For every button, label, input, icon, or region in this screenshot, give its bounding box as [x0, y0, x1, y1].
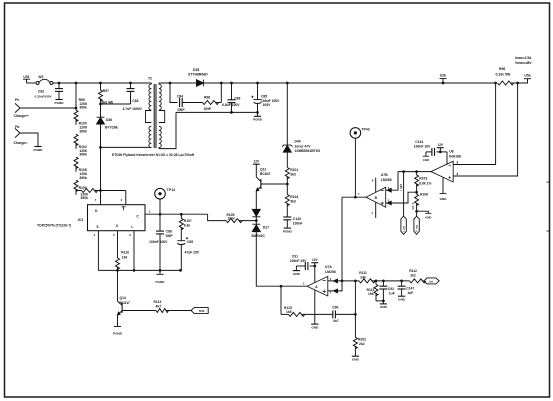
power symbol 12V (Q12) — [253, 160, 260, 165]
svg-text:R96: R96 — [499, 67, 505, 71]
svg-text:D36: D36 — [106, 118, 112, 122]
svg-text:4.7nF 1600V: 4.7nF 1600V — [123, 107, 143, 111]
svg-text:R109: R109 — [79, 186, 87, 190]
resistor R98 — [203, 96, 219, 111]
svg-text:I_out: I_out — [403, 226, 406, 232]
capacitor C85 — [251, 82, 280, 113]
capacitor C91 — [290, 254, 316, 270]
resistor R114 — [122, 300, 191, 313]
wire sense+ to U8 pin3 — [453, 83, 495, 165]
svg-text:24k: 24k — [360, 276, 366, 280]
svg-text:GND: GND — [440, 197, 448, 201]
svg-text:C82: C82 — [38, 90, 44, 94]
connector Pe Charger+ — [14, 98, 29, 118]
svg-text:Int: Int — [429, 279, 433, 283]
snubber wire right — [216, 102, 222, 104]
resistor R100 — [74, 122, 87, 149]
svg-text:U5a: U5a — [524, 73, 530, 77]
svg-text:GND: GND — [380, 305, 388, 309]
resistor R109 — [76, 186, 126, 200]
power symbol PGND (Q14) — [113, 327, 123, 336]
wire clamp rail — [101, 103, 131, 105]
svg-text:R106: R106 — [420, 192, 428, 196]
svg-text:C92: C92 — [388, 287, 394, 291]
capacitor C92 — [379, 281, 394, 304]
transistor Q12 — [256, 164, 287, 205]
svg-text:Pe: Pe — [15, 98, 19, 102]
resistor R202 — [353, 314, 366, 356]
wire U7B out — [342, 196, 366, 198]
svg-text:12V: 12V — [253, 160, 260, 164]
op-amp U8 INA168 — [431, 150, 461, 182]
capacitor C84 — [177, 94, 185, 112]
svg-text:Zener 47V: Zener 47V — [295, 144, 312, 148]
svg-text:TP43: TP43 — [361, 128, 369, 132]
wire output bus — [203, 82, 495, 84]
resistor R105 — [226, 213, 256, 223]
svg-text:GND: GND — [311, 325, 319, 329]
wire U8 V+ — [446, 152, 448, 165]
net flag TFB — [191, 308, 208, 314]
svg-text:Charger+: Charger+ — [14, 114, 29, 118]
wire U7A pin2 line — [328, 280, 359, 282]
capacitor C82 — [34, 82, 63, 100]
node U7B pin5 entry — [387, 201, 391, 205]
svg-text:47uF 25V: 47uF 25V — [185, 251, 200, 255]
op-amp U7A — [303, 265, 336, 296]
testpoint TP14 — [155, 188, 175, 199]
svg-text:T2: T2 — [148, 77, 152, 81]
capacitor C90 — [332, 305, 355, 322]
jumper W2 — [36, 75, 53, 85]
svg-text:6.8uF 100V: 6.8uF 100V — [222, 103, 240, 107]
svg-text:Q14: Q14 — [120, 296, 126, 300]
svg-text:1uF: 1uF — [407, 291, 413, 295]
svg-text:390k: 390k — [79, 153, 87, 157]
wire feedback drop — [280, 286, 282, 314]
svg-text:GND: GND — [352, 358, 360, 362]
wire U7B pin5 — [386, 192, 417, 203]
svg-text:R110: R110 — [121, 251, 129, 255]
wire secondary top — [159, 82, 196, 84]
diode D36 — [97, 104, 119, 129]
svg-text:12V: 12V — [437, 143, 444, 147]
wire Charger- to PGND — [20, 133, 38, 146]
svg-text:100V: 100V — [263, 103, 272, 107]
svg-text:C144: C144 — [415, 140, 423, 144]
svg-text:PGND: PGND — [253, 118, 263, 122]
svg-text:R114: R114 — [154, 300, 162, 304]
resistor R96 — [494, 67, 519, 85]
svg-text:D40: D40 — [295, 140, 301, 144]
wire U7B V- — [375, 202, 377, 218]
svg-text:C89: C89 — [187, 240, 193, 244]
svg-text:R103: R103 — [419, 177, 427, 181]
diode D27a — [252, 205, 260, 224]
svg-text:C90: C90 — [332, 305, 338, 309]
wire M pin — [125, 191, 127, 205]
svg-text:10k: 10k — [122, 255, 128, 259]
svg-text:TFB: TFB — [199, 309, 206, 313]
svg-text:IC4: IC4 — [78, 218, 83, 222]
svg-text:I_SET: I_SET — [399, 183, 403, 191]
svg-text:390k: 390k — [79, 130, 87, 134]
node feedback — [354, 313, 357, 316]
svg-text:C143: C143 — [293, 217, 301, 221]
node U7B pin6 entry — [387, 188, 391, 192]
svg-text:4n7: 4n7 — [333, 319, 339, 323]
svg-text:PGND: PGND — [283, 229, 293, 233]
wire U7B V+ — [375, 178, 377, 193]
wire TP14 to drain — [159, 199, 161, 214]
terminal U51 — [23, 75, 36, 83]
svg-text:3k3: 3k3 — [290, 200, 296, 204]
border tick 1 — [547, 181, 550, 183]
power symbol PGND (C143) — [283, 228, 293, 233]
ground (C147) — [398, 296, 406, 301]
wire U8 out line — [398, 171, 431, 173]
ground (R202) — [352, 356, 360, 361]
ground (U7A V-) — [311, 324, 319, 329]
svg-text:BC817: BC817 — [120, 301, 131, 305]
capacitor C143 — [283, 217, 302, 228]
svg-text:4: 4 — [456, 172, 458, 176]
svg-text:STTH8R06D: STTH8R06D — [188, 73, 208, 77]
ground (R113/C92) — [380, 304, 388, 309]
svg-text:U2b: U2b — [440, 73, 446, 77]
resistor R102 — [74, 145, 87, 172]
svg-text:BYV26E: BYV26E — [105, 125, 119, 129]
svg-text:PGND: PGND — [34, 148, 44, 152]
wire primary bottom — [101, 146, 152, 148]
svg-text:R107: R107 — [184, 219, 192, 223]
svg-text:R98: R98 — [204, 96, 210, 100]
connector Pd Charger- — [14, 125, 28, 145]
svg-text:0.33e 5W: 0.33e 5W — [496, 72, 511, 76]
snubber wire left — [169, 82, 172, 85]
svg-text:4k7: 4k7 — [156, 304, 162, 308]
svg-text:C86: C86 — [234, 96, 240, 100]
svg-text:Vmax=48V: Vmax=48V — [515, 61, 532, 65]
svg-text:BAR43C: BAR43C — [252, 234, 266, 238]
svg-text:U7B: U7B — [381, 173, 388, 177]
svg-text:6.8e: 6.8e — [184, 224, 191, 228]
node U7A pin3 entry — [334, 289, 338, 293]
svg-text:0.22uF630V: 0.22uF630V — [34, 95, 52, 99]
svg-text:PGND: PGND — [156, 280, 166, 284]
svg-text:1k5: 1k5 — [286, 310, 292, 314]
svg-text:Q12: Q12 — [260, 168, 266, 172]
svg-text:GND: GND — [423, 158, 429, 162]
power symbol PGND (source rail) — [156, 270, 166, 284]
wire U7A V- — [314, 290, 316, 324]
transformer T2 — [146, 77, 165, 149]
wire U7A pin3 — [328, 281, 342, 291]
wire U7A out — [280, 285, 283, 288]
svg-text:D27: D27 — [263, 226, 269, 230]
svg-text:INA168: INA168 — [449, 155, 461, 159]
wire U7A V+ — [314, 263, 316, 283]
resistor R111 — [359, 271, 410, 283]
svg-text:100nF: 100nF — [293, 222, 303, 226]
resistor R104 — [285, 184, 298, 217]
net flag Int — [424, 278, 439, 284]
svg-text:TOP250YN (TO220-7): TOP250YN (TO220-7) — [37, 224, 71, 228]
svg-text:Imax=2.5A: Imax=2.5A — [515, 56, 532, 60]
note Imax Vmax — [515, 56, 532, 65]
testpoint TP43 — [350, 128, 370, 139]
svg-text:12V: 12V — [312, 258, 319, 262]
resistor R97 — [99, 82, 114, 105]
resistor R110 — [116, 231, 130, 271]
node D27 mid — [255, 219, 258, 222]
wire output gnd rail — [176, 111, 258, 113]
svg-text:DNP: DNP — [178, 108, 186, 112]
resistor R106 — [415, 192, 429, 212]
svg-text:LM258: LM258 — [381, 178, 392, 182]
svg-text:LM258: LM258 — [325, 270, 336, 274]
svg-text:390k: 390k — [79, 176, 87, 180]
capacitor C83 — [123, 82, 143, 111]
power symbol 12V (U8) — [437, 143, 444, 152]
svg-text:100uF 100V: 100uF 100V — [261, 99, 280, 103]
svg-text:U7A: U7A — [325, 265, 332, 269]
svg-text:100nF 16V: 100nF 16V — [414, 145, 431, 149]
resistor R115 — [281, 306, 333, 317]
resistor R99 — [74, 98, 87, 125]
wire Charger+ to divider — [20, 107, 76, 109]
capacitor C144 — [414, 140, 447, 156]
resistor R112 — [409, 269, 426, 283]
svg-text:3: 3 — [456, 161, 458, 165]
node Q12 base — [286, 183, 289, 186]
svg-text:C147: C147 — [406, 287, 414, 291]
svg-text:GND: GND — [425, 216, 431, 220]
svg-text:390k: 390k — [80, 196, 88, 200]
svg-text:3k3: 3k3 — [290, 173, 296, 177]
capacitor C89 — [177, 237, 200, 270]
node U7A pin2 entry — [334, 279, 338, 283]
svg-text:C91: C91 — [292, 254, 298, 258]
wire IC4 pin6 — [133, 231, 135, 271]
wire U7B out drop — [341, 197, 343, 281]
svg-text:2k2: 2k2 — [410, 274, 416, 278]
wire bus to R99 — [75, 82, 78, 85]
svg-text:R112: R112 — [409, 269, 417, 273]
svg-text:C84: C84 — [177, 94, 183, 98]
wire primary top — [59, 82, 151, 84]
svg-text:GND: GND — [398, 298, 406, 302]
svg-text:U8: U8 — [449, 150, 453, 154]
svg-text:BC847: BC847 — [260, 172, 271, 176]
svg-text:ETD39 Flyback transformer N1:N: ETD39 Flyback transformer N1:N2 = 52:28 … — [112, 153, 195, 157]
power symbol 12V (U7A) — [311, 258, 318, 263]
op-amp U7B — [358, 173, 392, 207]
svg-text:390k: 390k — [79, 106, 87, 110]
ground (C91) — [293, 266, 301, 276]
svg-text:DNP: DNP — [166, 234, 174, 238]
wire C84 to R98 — [182, 102, 202, 104]
svg-text:U51: U51 — [23, 75, 29, 79]
svg-text:L: L — [131, 225, 133, 229]
zener D40 — [282, 140, 320, 154]
wire secondary bottom — [159, 112, 176, 148]
svg-text:D35: D35 — [193, 68, 199, 72]
capacitor C86 — [222, 82, 240, 113]
wire sense- to U8 pin4 — [453, 83, 517, 176]
capacitor C147 — [398, 281, 415, 296]
wire R111 node to C90 node — [354, 281, 356, 315]
resistor R101 — [285, 152, 298, 184]
svg-text:1SMB5941BT3G: 1SMB5941BT3G — [295, 149, 321, 153]
svg-text:100nF 25V: 100nF 25V — [290, 259, 307, 263]
svg-text:1uF: 1uF — [389, 291, 395, 295]
svg-text:6.8k 1%: 6.8k 1% — [419, 182, 431, 186]
svg-text:R101: R101 — [290, 168, 298, 172]
net flag Iout (vertical) — [401, 172, 406, 235]
ground (R106) — [417, 211, 432, 219]
svg-text:R202: R202 — [358, 338, 366, 342]
wire source rail — [98, 269, 180, 271]
diode D27b — [252, 224, 270, 238]
svg-text:R111: R111 — [359, 271, 367, 275]
diode D35 — [188, 68, 208, 87]
svg-text:PGND: PGND — [113, 332, 123, 336]
svg-text:TP14: TP14 — [167, 188, 175, 192]
svg-text:100nF 100V: 100nF 100V — [149, 240, 168, 244]
wire U8 gnd pin — [440, 177, 448, 201]
wire drain to R105 — [145, 213, 208, 215]
terminal U5a — [518, 73, 531, 83]
capacitor C88 — [149, 214, 173, 270]
svg-text:V_out: V_out — [416, 225, 419, 232]
resistor R113 — [367, 281, 384, 301]
svg-text:GND: GND — [293, 272, 301, 276]
power symbol PGND (C82) — [55, 100, 65, 105]
wire U7B pin6 — [386, 172, 398, 191]
wire bus to D40 — [286, 82, 289, 85]
border tick 2 — [547, 230, 550, 232]
svg-text:2k2: 2k2 — [359, 342, 365, 346]
svg-text:VO_S: VO_S — [411, 202, 415, 209]
resistor R107 — [179, 213, 192, 241]
resistor R108 — [74, 168, 87, 195]
svg-text:PGND: PGND — [55, 101, 65, 105]
svg-text:W2: W2 — [38, 75, 43, 79]
svg-text:DNP: DNP — [204, 107, 212, 111]
wire W2 to bus — [53, 82, 59, 84]
svg-text:10k: 10k — [368, 292, 374, 296]
power symbol PGND (Charger-) — [34, 147, 44, 152]
svg-text:R97: R97 — [103, 89, 109, 93]
power symbol PGND (output) — [253, 112, 263, 121]
resistor R103 — [415, 172, 432, 194]
wire IC4 source pins — [97, 231, 99, 271]
wire D27 to U7A — [256, 232, 307, 287]
svg-text:Charger-: Charger- — [14, 141, 28, 145]
svg-text:C83: C83 — [132, 99, 138, 103]
transistor Q14 — [118, 270, 131, 326]
net flag Vout (vertical) — [414, 211, 419, 234]
wire drain column — [100, 124, 102, 205]
svg-text:100e: 100e — [228, 216, 236, 220]
IC IC4 TOP250YN — [37, 198, 145, 237]
wire TP43 — [354, 138, 356, 197]
terminal U2b — [440, 73, 447, 84]
ground (C144) — [423, 152, 429, 162]
svg-text:R104: R104 — [290, 195, 298, 199]
